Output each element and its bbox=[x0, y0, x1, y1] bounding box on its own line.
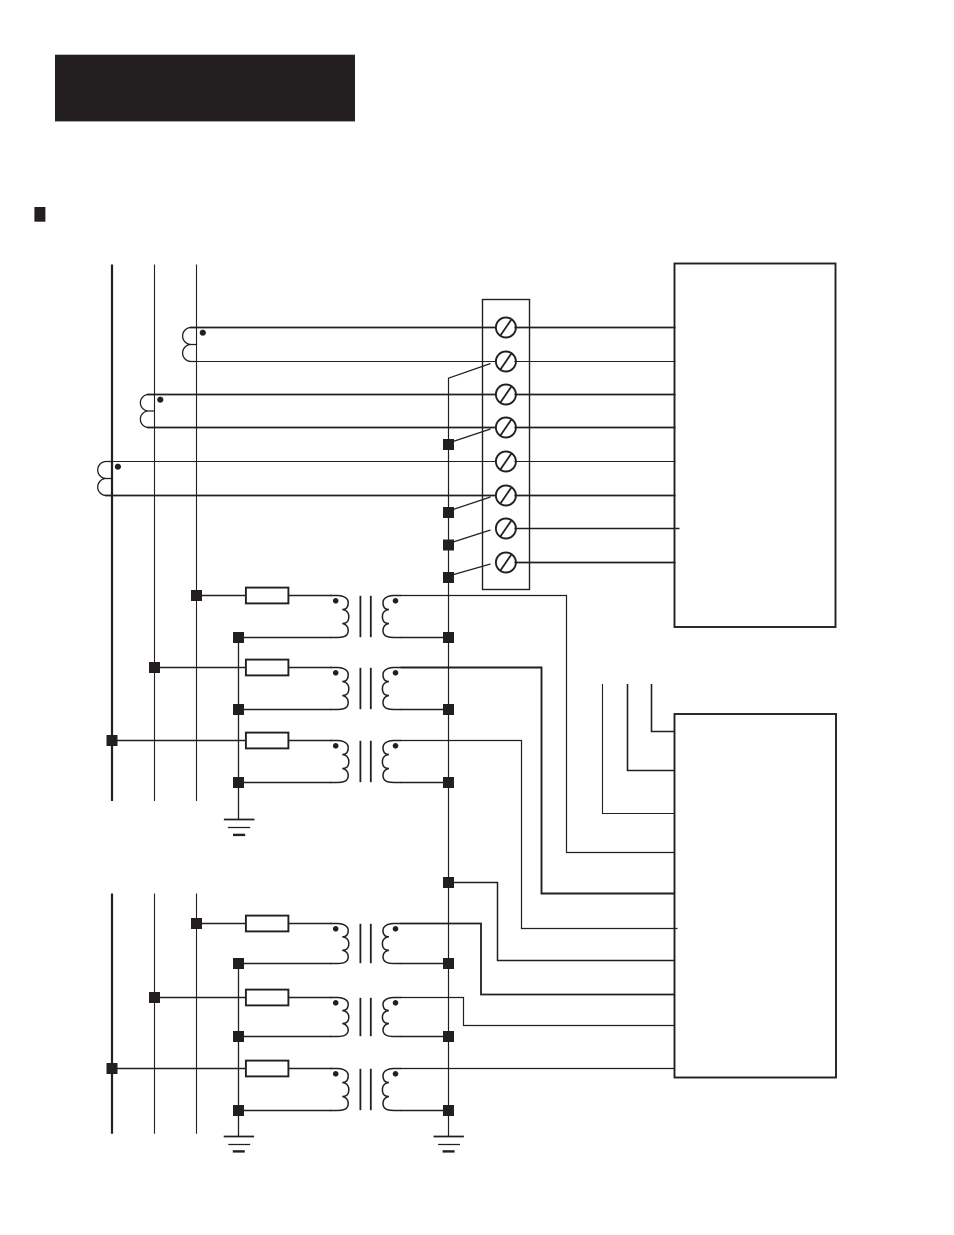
wire: primary return VT4 bbox=[239, 963, 332, 965]
node junction on common bus bbox=[443, 507, 454, 518]
fuse F-VT6 bbox=[246, 1061, 289, 1077]
wire: primary return VT5 bbox=[239, 1036, 332, 1038]
transformer VT6 secondary winding bbox=[382, 1069, 401, 1111]
wire: diagonal from common bus to terminal 4 bbox=[449, 429, 491, 443]
node: secondary low junction VT5 bbox=[443, 1031, 454, 1042]
wire: secondary low side VT4 bbox=[401, 963, 449, 965]
wire: CT2 S2 wire to terminal 4 bbox=[147, 427, 497, 429]
wire: primary return VT6 bbox=[239, 1110, 332, 1112]
transformer VT4 primary winding bbox=[330, 924, 349, 964]
wire: VT1 secondary to relay (via x=566) bbox=[401, 596, 676, 853]
transformer VT6 core bbox=[359, 1069, 361, 1110]
wire: diagonal from common bus to terminal 7 bbox=[449, 530, 491, 544]
terminal 1 (screw) bbox=[496, 318, 516, 338]
fuse F-VT4 bbox=[246, 916, 289, 932]
ground (common bus, bottom) bbox=[434, 1136, 464, 1138]
fuse F-VT3 bbox=[246, 733, 289, 749]
wire: VT3 secondary to relay (via x=521) bbox=[401, 741, 678, 929]
node junction on common bus bbox=[443, 540, 454, 551]
transformer VT3 primary winding bbox=[330, 741, 349, 783]
wire: primary return VT1 bbox=[239, 637, 332, 639]
transformer VT4 core bbox=[359, 924, 361, 963]
wire: terminal 2 to relay input bbox=[514, 361, 675, 363]
node: secondary low junction VT1 bbox=[443, 632, 454, 643]
transformer VT3 core bbox=[359, 741, 361, 782]
wire: VT4 secondary to relay (via x=481) bbox=[401, 924, 676, 995]
transformer VT1 secondary winding bbox=[382, 596, 401, 638]
transformer VT5 secondary winding bbox=[382, 998, 401, 1037]
wire: diagonal from common bus to terminal 2 bbox=[449, 364, 491, 379]
CT3 current transformer (phase A) bbox=[98, 462, 113, 496]
terminal 6 (screw) bbox=[496, 486, 516, 506]
header title bar (redacted text block) bbox=[55, 55, 355, 122]
wire: primary return VT2 bbox=[239, 709, 332, 711]
wire: bus tap to fuse VT3 bbox=[112, 740, 247, 742]
transformer VT1 primary winding bbox=[330, 596, 349, 638]
node: secondary low junction VT2 bbox=[443, 704, 454, 715]
ground (upper VT neutral) bbox=[224, 819, 255, 821]
fuse F-VT1 bbox=[246, 588, 289, 604]
wire: CT2 S1 wire to terminal 3 bbox=[147, 394, 497, 396]
polarity dot VT6 secondary bbox=[393, 1071, 399, 1077]
polarity dot VT4 primary bbox=[333, 926, 339, 932]
section bullet square bbox=[34, 207, 45, 222]
wire: CT3 S2 wire to terminal 6 bbox=[105, 495, 497, 497]
node junction on common bus bbox=[443, 572, 454, 583]
terminal 7 (screw) bbox=[496, 519, 516, 539]
node: secondary low junction VT4 bbox=[443, 958, 454, 969]
node junction on common bus bbox=[443, 439, 454, 450]
wire: phase bus B (lower section) bbox=[154, 894, 156, 1134]
polarity dot VT1 primary bbox=[333, 598, 339, 604]
node: primary return junction VT5 bbox=[233, 1031, 244, 1042]
wire: terminal 6 to relay input bbox=[514, 495, 675, 497]
polarity dot VT2 secondary bbox=[393, 670, 399, 676]
wire: bus tap to fuse VT6 bbox=[112, 1068, 247, 1070]
node: junction on phase bus for VT5 bbox=[149, 992, 160, 1003]
wire: VT2 secondary to relay (via x=542) bbox=[401, 668, 676, 894]
wire: primary return VT3 bbox=[239, 782, 332, 784]
wire: VT neutral bus (lower) bbox=[238, 964, 240, 1137]
transformer VT1 core bbox=[359, 596, 361, 637]
transformer VT4 secondary winding bbox=[382, 924, 401, 964]
wire: bus tap to fuse VT2 bbox=[155, 667, 247, 669]
wire: diagonal from common bus to terminal 8 bbox=[449, 564, 491, 576]
terminal block TB1 bbox=[483, 300, 530, 590]
node: secondary low junction VT3 bbox=[443, 777, 454, 788]
wire: fuse to primary winding VT1 bbox=[288, 595, 332, 597]
polarity dot VT5 secondary bbox=[393, 1000, 399, 1006]
wire: fuse to primary winding VT4 bbox=[288, 923, 332, 925]
node: primary return junction VT6 bbox=[233, 1105, 244, 1116]
wire: secondary low side VT5 bbox=[401, 1036, 449, 1038]
wire: secondary low side VT6 bbox=[401, 1110, 449, 1112]
wire: terminal 3 to relay input bbox=[514, 394, 675, 396]
wire: VT neutral bus (upper) bbox=[238, 638, 240, 820]
wire: fuse to primary winding VT2 bbox=[288, 667, 332, 669]
wire: diagonal from common bus to terminal 6 bbox=[449, 497, 491, 511]
polarity dot VT1 secondary bbox=[393, 598, 399, 604]
wire: phase bus B (upper section) bbox=[154, 265, 156, 802]
wire: terminal 7 to relay input bbox=[514, 528, 675, 530]
wire: secondary low side VT2 bbox=[401, 709, 449, 711]
wire: CT1 S2 wire to terminal 2 bbox=[190, 361, 497, 363]
transformer VT3 secondary winding bbox=[382, 741, 401, 783]
wire: VT6 secondary to relay (straight) bbox=[401, 1068, 676, 1070]
transformer VT6 primary winding bbox=[330, 1069, 349, 1111]
node: primary return junction VT3 bbox=[233, 777, 244, 788]
wire: terminal 8 to relay input bbox=[514, 562, 675, 564]
node: primary return junction VT1 bbox=[233, 632, 244, 643]
wire: secondary low side VT1 bbox=[401, 637, 449, 639]
wire: phase bus C (upper section) bbox=[196, 265, 198, 802]
wire: terminal 4 to relay input bbox=[514, 427, 675, 429]
node: tap junction on common bus bbox=[443, 877, 454, 888]
node: secondary low junction VT6 bbox=[443, 1105, 454, 1116]
terminal 4 (screw) bbox=[496, 418, 516, 438]
wire: bus tap to fuse VT1 bbox=[197, 595, 247, 597]
transformer VT2 secondary winding bbox=[382, 668, 401, 710]
wire: bus tap to fuse VT4 bbox=[197, 923, 247, 925]
wire: voltage input stub 1 bbox=[652, 684, 676, 732]
wire: terminal 7 overshoot dash bbox=[676, 528, 680, 530]
node: junction on phase bus for VT3 bbox=[107, 735, 118, 746]
ground (lower VT neutral) bbox=[224, 1136, 254, 1138]
polarity dot VT6 primary bbox=[333, 1071, 339, 1077]
wire: terminal 5 to relay input bbox=[514, 461, 675, 463]
wire: phase bus A (upper section) bbox=[111, 265, 113, 802]
wire: phase bus C (lower section) bbox=[196, 894, 198, 1134]
wire: secondary low side VT3 bbox=[401, 782, 449, 784]
polarity dot VT3 secondary bbox=[393, 743, 399, 749]
wire: fuse to primary winding VT5 bbox=[288, 997, 332, 999]
terminal 2 (screw) bbox=[496, 352, 516, 372]
node: junction on phase bus for VT2 bbox=[149, 662, 160, 673]
polarity dot VT4 secondary bbox=[393, 926, 399, 932]
node: primary return junction VT2 bbox=[233, 704, 244, 715]
wire: voltage input stub 2 bbox=[628, 684, 676, 771]
fuse F-VT5 bbox=[246, 990, 289, 1006]
wire: CT1 S1 wire to terminal 1 bbox=[190, 327, 497, 329]
wire: common return vertical bus bbox=[448, 378, 450, 1137]
transformer VT2 primary winding bbox=[330, 668, 349, 710]
node: junction on phase bus for VT4 bbox=[191, 918, 202, 929]
wire: bus tap to fuse VT5 bbox=[155, 997, 247, 999]
polarity dot VT2 primary bbox=[333, 670, 339, 676]
terminal 5 (screw) bbox=[496, 452, 516, 472]
transformer VT2 core bbox=[359, 668, 361, 709]
node: primary return junction VT4 bbox=[233, 958, 244, 969]
wire: phase bus A (lower section) bbox=[111, 894, 113, 1134]
terminal 8 (screw) bbox=[496, 553, 516, 573]
terminal 3 (screw) bbox=[496, 385, 516, 405]
relay unit box U1 (current inputs) bbox=[675, 264, 836, 628]
node: junction on phase bus for VT1 bbox=[191, 590, 202, 601]
fuse F-VT2 bbox=[246, 660, 289, 676]
wire: voltage input stub 3 bbox=[603, 684, 676, 814]
wire: fuse to primary winding VT3 bbox=[288, 740, 332, 742]
wire: VT5 secondary to relay (via x=463) bbox=[401, 998, 676, 1026]
transformer VT5 core bbox=[359, 998, 361, 1036]
polarity dot VT5 primary bbox=[333, 1000, 339, 1006]
CT2 current transformer (phase B) bbox=[140, 395, 154, 428]
wire: fuse to primary winding VT6 bbox=[288, 1068, 332, 1070]
relay unit box U2 (voltage inputs) bbox=[675, 714, 837, 1078]
wire: common bus tap to relay (via x=497) bbox=[449, 883, 676, 961]
transformer VT5 primary winding bbox=[330, 998, 349, 1037]
node: junction on phase bus for VT6 bbox=[107, 1063, 118, 1074]
polarity dot VT3 primary bbox=[333, 743, 339, 749]
CT1 current transformer (phase C) bbox=[183, 328, 198, 362]
wire: CT3 S1 wire to terminal 5 bbox=[105, 461, 497, 463]
wire: terminal 1 to relay input bbox=[514, 327, 675, 329]
